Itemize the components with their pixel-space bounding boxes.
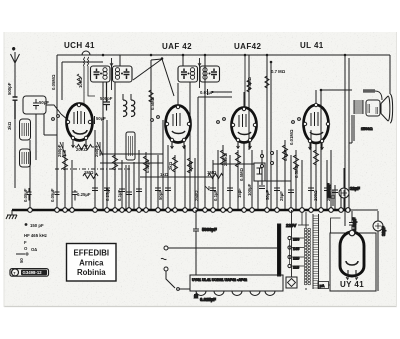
- svg-text:0.25µF: 0.25µF: [105, 187, 110, 201]
- svg-text:1500Ω: 1500Ω: [361, 127, 373, 131]
- svg-text:2kΩ: 2kΩ: [168, 161, 173, 170]
- svg-text:0.01MΩ: 0.01MΩ: [289, 129, 294, 145]
- svg-text:50µF: 50µF: [96, 116, 106, 121]
- svg-text:50: 50: [19, 258, 24, 263]
- svg-text:F: F: [24, 240, 27, 245]
- svg-text:Arnica: Arnica: [79, 259, 104, 268]
- svg-text:UY41 UL41 UCH41 UAF42 •AF42: UY41 UL41 UCH41 UAF42 •AF42: [192, 278, 247, 282]
- svg-text:UCH 41: UCH 41: [64, 41, 95, 50]
- svg-text:100µF: 100µF: [247, 183, 252, 196]
- svg-text:50pF: 50pF: [39, 100, 49, 105]
- svg-text:0.1µF: 0.1µF: [213, 190, 218, 201]
- svg-text:250pF: 250pF: [57, 144, 62, 157]
- svg-text:100Ω: 100Ω: [313, 190, 318, 201]
- svg-text:140: 140: [293, 247, 299, 251]
- svg-text:1kΩ: 1kΩ: [160, 172, 169, 177]
- svg-text:3kΩ: 3kΩ: [7, 121, 12, 130]
- svg-text:15µF: 15µF: [237, 188, 242, 198]
- svg-text:UL 41: UL 41: [300, 41, 324, 50]
- svg-text:150 pF: 150 pF: [30, 223, 44, 228]
- svg-text:0.01µF: 0.01µF: [200, 90, 214, 95]
- svg-text:32µF: 32µF: [381, 226, 386, 236]
- svg-text:O∆: O∆: [31, 247, 37, 252]
- svg-text:UAF42: UAF42: [234, 42, 261, 51]
- svg-text:0.25µF: 0.25µF: [77, 192, 91, 197]
- svg-text:500pF: 500pF: [7, 82, 12, 95]
- svg-text:0.5MΩ: 0.5MΩ: [239, 167, 244, 181]
- svg-text:0.05µF: 0.05µF: [23, 188, 28, 202]
- svg-text:UAF 42: UAF 42: [162, 42, 192, 51]
- svg-text:25µF: 25µF: [279, 191, 284, 201]
- svg-text:Robinia: Robinia: [77, 268, 106, 277]
- svg-text:µA: µA: [320, 284, 325, 288]
- svg-text:UY 41: UY 41: [340, 280, 364, 289]
- svg-text:0.05MΩ: 0.05MΩ: [51, 74, 56, 90]
- svg-text:0.025µF: 0.025µF: [200, 297, 216, 302]
- svg-text:115: 115: [293, 266, 299, 270]
- svg-text:50pF: 50pF: [158, 190, 163, 200]
- svg-text:129: 129: [293, 257, 299, 261]
- svg-text:50pF: 50pF: [265, 190, 270, 200]
- svg-text:32µF: 32µF: [350, 186, 360, 191]
- svg-text:250Ω: 250Ω: [194, 190, 199, 201]
- svg-text:0.7 MΩ: 0.7 MΩ: [271, 69, 286, 74]
- svg-text:0.02µF: 0.02µF: [352, 217, 357, 231]
- svg-text:HF 465 kHz: HF 465 kHz: [24, 233, 47, 238]
- svg-text:0.05µF: 0.05µF: [50, 188, 55, 202]
- svg-text:EFFEDIBI: EFFEDIBI: [74, 249, 110, 258]
- svg-text:G3498-12: G3498-12: [23, 270, 43, 275]
- svg-text:5000pF: 5000pF: [202, 227, 217, 232]
- svg-text:250pF: 250pF: [94, 144, 99, 157]
- svg-text:150: 150: [293, 238, 299, 242]
